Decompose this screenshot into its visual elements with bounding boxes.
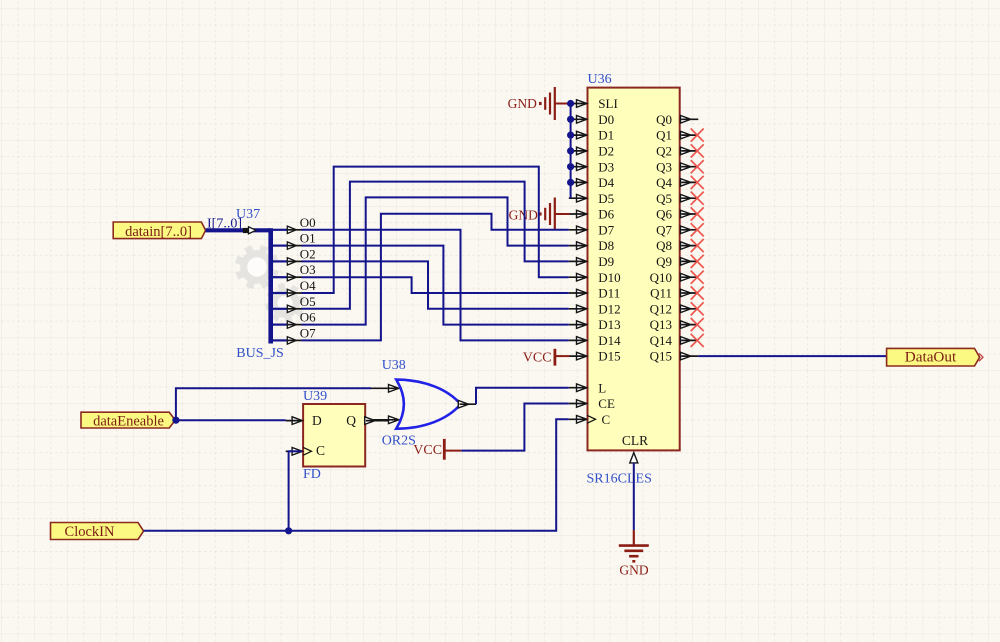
no-ERC marker on Q3 (691, 160, 704, 173)
pin Q8 (681, 242, 691, 250)
junction at D1 (567, 132, 574, 139)
no-ERC marker on Q8 (691, 239, 704, 252)
svg-text:U36: U36 (588, 72, 612, 87)
svg-text:D9: D9 (598, 254, 614, 269)
pin Q15 (681, 352, 691, 360)
svg-text:O3: O3 (300, 262, 316, 277)
splitter tap O5 (273, 308, 288, 310)
no-ERC marker on Q1 (691, 129, 704, 142)
pin D12 (577, 305, 587, 313)
wire dataEneable to FD D (176, 419, 286, 421)
svg-text:D12: D12 (598, 301, 620, 316)
svg-text:D15: D15 (598, 349, 620, 364)
pin Q12 (681, 305, 691, 313)
or-gate U38 body (396, 380, 460, 429)
svg-text:Q13: Q13 (650, 317, 672, 332)
pin D8 (577, 242, 587, 250)
wire FD Q to OR input 2 (383, 420, 388, 422)
wire dataEneable to OR input 1 (176, 388, 371, 420)
pin D9 (577, 258, 587, 266)
splitter tap O6 (273, 324, 288, 326)
svg-text:D10: D10 (598, 270, 620, 285)
junction at ClockIN branch (285, 527, 292, 534)
pin D5 (577, 194, 587, 202)
DataOut tip marker (979, 353, 983, 361)
junction at D2 (567, 147, 574, 154)
junction at D3 (567, 163, 574, 170)
pin Q14 (681, 337, 691, 345)
svg-text:Q0: Q0 (656, 112, 672, 127)
pin SLI (577, 100, 587, 108)
pin D10 (577, 273, 587, 281)
no-ERC marker on Q10 (691, 271, 704, 284)
svg-text:Q5: Q5 (656, 191, 672, 206)
svg-text:Q15: Q15 (650, 349, 672, 364)
svg-text:D8: D8 (598, 238, 614, 253)
pin Q7 (681, 226, 691, 234)
splitter tap O7 (273, 339, 288, 341)
splitter tap O2 (273, 260, 288, 262)
pin Q1 (681, 131, 691, 139)
svg-text:O4: O4 (300, 278, 316, 293)
or-gate U38 output pin (458, 400, 468, 408)
pin D of U39 (292, 417, 302, 425)
svg-text:Q14: Q14 (650, 333, 673, 348)
pin Q13 (681, 321, 691, 329)
svg-text:GND: GND (619, 563, 648, 578)
svg-text:D5: D5 (598, 191, 614, 206)
svg-text:BUS_JS: BUS_JS (236, 346, 283, 361)
bus wire datain to splitter (206, 228, 271, 232)
svg-text:D: D (312, 413, 322, 428)
svg-text:D0: D0 (598, 112, 614, 127)
no-ERC marker on Q7 (691, 223, 704, 236)
splitter tap O3 (273, 276, 288, 278)
wire OR output to L (476, 388, 569, 405)
svg-text:D7: D7 (598, 222, 614, 237)
pin Q5 (681, 194, 691, 202)
pin D15 (577, 352, 587, 360)
port ClockIN (51, 523, 144, 540)
junction at D4 (567, 179, 574, 186)
junction at D0 (567, 116, 574, 123)
pin CLR (bottom) (630, 453, 638, 463)
svg-text:D6: D6 (598, 207, 614, 222)
no-ERC marker on Q12 (691, 302, 704, 315)
svg-text:GND: GND (509, 208, 538, 223)
svg-text:Q3: Q3 (656, 159, 672, 174)
svg-text:D2: D2 (598, 144, 614, 159)
svg-text:Q1: Q1 (656, 128, 672, 143)
svg-text:Q9: Q9 (656, 254, 672, 269)
ground GND (top, SLI/D0-D5 tie) (539, 102, 542, 105)
no-ERC marker on Q11 (691, 286, 704, 299)
pin Q4 (681, 179, 691, 187)
svg-text:D13: D13 (598, 317, 620, 332)
pin D6 (577, 210, 587, 218)
svg-text:OR2S: OR2S (382, 434, 416, 449)
wire GND tie vertical (SLI-D5) (570, 104, 572, 199)
pin D1 (577, 131, 587, 139)
pin Q0 (681, 116, 691, 124)
bus entry pin of BUS_JS (243, 228, 248, 233)
or-gate U38 input pins (389, 385, 399, 393)
port DataOut (887, 348, 980, 366)
watermark gear large (235, 245, 279, 289)
pin L (577, 384, 587, 392)
svg-text:VCC: VCC (413, 443, 442, 458)
svg-text:Q2: Q2 (656, 144, 672, 159)
svg-text:Q12: Q12 (650, 301, 672, 316)
wire O3->D11 (302, 277, 569, 293)
svg-text:dataEneable: dataEneable (93, 413, 164, 429)
svg-text:U38: U38 (382, 358, 406, 373)
pin Q of U39 (365, 417, 375, 425)
no-ERC marker on Q9 (691, 255, 704, 268)
pin CE (577, 400, 587, 408)
pin D2 (577, 147, 587, 155)
svg-text:O7: O7 (300, 325, 316, 340)
svg-text:D11: D11 (598, 286, 620, 301)
svg-text:VCC: VCC (523, 351, 552, 366)
svg-text:D14: D14 (598, 333, 621, 348)
svg-text:SLI: SLI (598, 96, 618, 111)
svg-text:O2: O2 (300, 246, 316, 261)
wire O7->D7 (302, 214, 569, 341)
svg-text:O5: O5 (300, 294, 316, 309)
svg-text:Q7: Q7 (656, 222, 672, 237)
junction at dataEneable (172, 417, 179, 424)
pin Q10 (681, 273, 691, 281)
svg-text:L: L (598, 380, 606, 395)
svg-text:FD: FD (303, 467, 321, 482)
svg-text:Q11: Q11 (650, 286, 672, 301)
junction at SLI (567, 100, 574, 107)
pin Q9 (681, 258, 691, 266)
D flip-flop U39 body (303, 404, 365, 467)
splitter tap O1 (273, 245, 288, 247)
wire Q15 to DataOut (698, 355, 886, 357)
wire O0->D14 (302, 230, 569, 341)
svg-text:Q8: Q8 (656, 238, 672, 253)
pin Q11 (681, 289, 691, 297)
svg-text:Q: Q (346, 413, 356, 428)
svg-text:D1: D1 (598, 128, 614, 143)
wire VCC to CE (461, 404, 569, 451)
pin D7 (577, 226, 587, 234)
pin Q6 (681, 210, 691, 218)
bus splitter vertical bar BUS_JS (268, 228, 273, 343)
pin D3 (577, 163, 587, 171)
no-ERC marker on Q14 (691, 334, 704, 347)
pin Q3 (681, 163, 691, 171)
svg-text:U37: U37 (236, 207, 260, 222)
wire O6->D8 (302, 197, 569, 324)
no-ERC marker on Q13 (691, 318, 704, 331)
svg-text:D3: D3 (598, 159, 614, 174)
svg-text:ClockIN: ClockIN (65, 524, 115, 540)
port datain[7..0] (113, 222, 205, 239)
svg-text:O0: O0 (300, 215, 316, 230)
shift register U36 body (588, 88, 680, 451)
splitter tap O4 (273, 292, 288, 294)
no-ERC marker on Q6 (691, 207, 704, 220)
no-ERC marker on Q2 (691, 144, 704, 157)
svg-text:D4: D4 (598, 175, 614, 190)
watermark gear small (265, 283, 305, 323)
svg-text:GND: GND (508, 96, 537, 111)
svg-text:Q4: Q4 (656, 175, 672, 190)
svg-text:DataOut: DataOut (905, 349, 957, 366)
svg-text:SR16CLES: SR16CLES (587, 472, 652, 487)
wire O1->D13 (302, 246, 569, 325)
svg-text:datain[7..0]: datain[7..0] (125, 224, 192, 240)
ground GND (below CLR) (633, 530, 635, 545)
wire O2->D12 (302, 261, 569, 308)
no-ERC marker on Q5 (691, 192, 704, 205)
no-ERC marker on Q4 (691, 176, 704, 189)
svg-text:Q10: Q10 (650, 270, 672, 285)
wire ClockIN to U36 C (144, 419, 569, 531)
pin C of U39 (292, 448, 302, 456)
pin Q2 (681, 147, 691, 155)
svg-text:U39: U39 (303, 389, 327, 404)
svg-text:C: C (316, 443, 325, 458)
pin D13 (577, 321, 587, 329)
wire ClockIN branch to FD C (289, 451, 302, 531)
svg-text:CLR: CLR (622, 433, 648, 448)
ground GND (D6) (539, 212, 542, 215)
pin D4 (577, 179, 587, 187)
svg-text:O6: O6 (300, 310, 316, 325)
splitter tap O0 (273, 229, 288, 231)
pin D14 (577, 337, 587, 345)
pin D0 (577, 116, 587, 124)
port dataEneable (81, 412, 175, 428)
svg-text:Q6: Q6 (656, 207, 672, 222)
wire O4->D10 (302, 167, 569, 293)
svg-text:C: C (602, 412, 611, 427)
pin C (577, 416, 587, 424)
svg-text:O1: O1 (300, 231, 316, 246)
wire O5->D9 (302, 182, 569, 309)
svg-text:CE: CE (598, 396, 615, 411)
pin D11 (577, 289, 587, 297)
